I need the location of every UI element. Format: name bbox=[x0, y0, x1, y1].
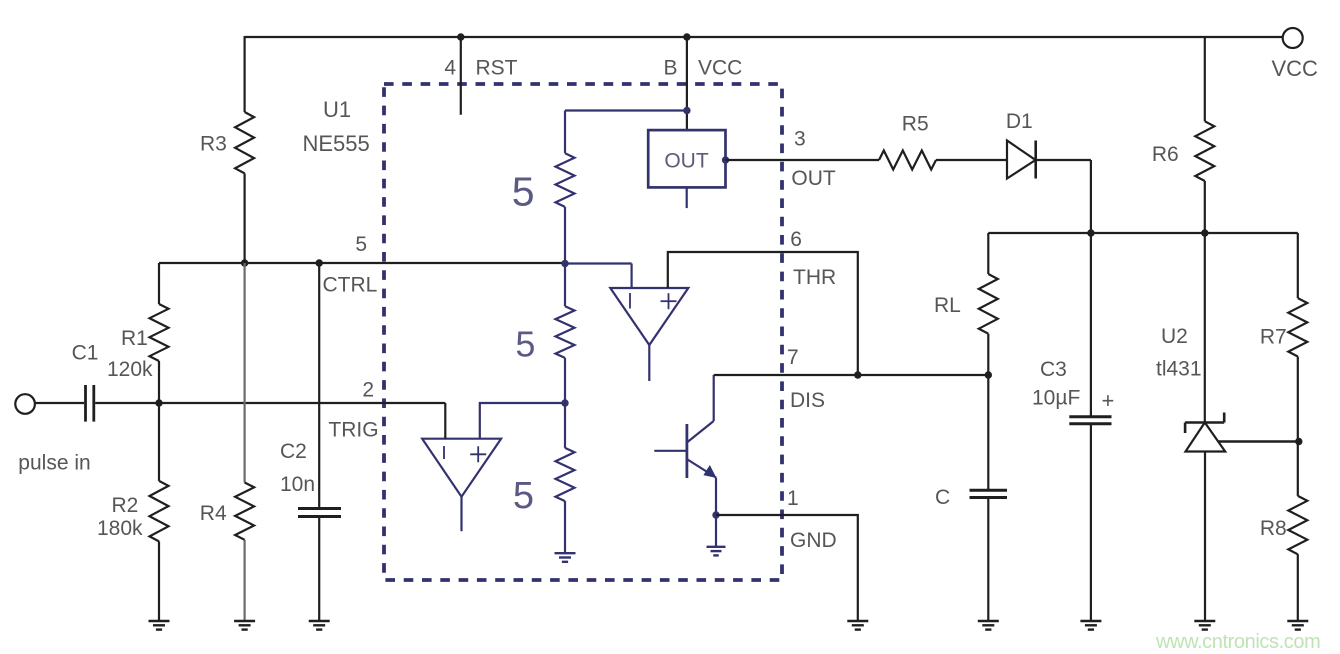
svg-text:pulse in: pulse in bbox=[18, 452, 90, 475]
svg-text:NE555: NE555 bbox=[303, 131, 370, 156]
svg-text:5: 5 bbox=[355, 233, 367, 256]
svg-text:U2: U2 bbox=[1161, 325, 1188, 348]
svg-text:CTRL: CTRL bbox=[323, 274, 378, 297]
svg-text:R1: R1 bbox=[121, 327, 148, 350]
svg-text:10n: 10n bbox=[280, 473, 315, 496]
svg-text:RL: RL bbox=[934, 294, 961, 317]
svg-text:5: 5 bbox=[512, 169, 535, 215]
svg-text:www.cntronics.com: www.cntronics.com bbox=[1155, 631, 1320, 653]
svg-text:TRIG: TRIG bbox=[328, 419, 378, 442]
svg-text:R7: R7 bbox=[1260, 326, 1287, 349]
svg-text:R6: R6 bbox=[1152, 143, 1179, 166]
svg-text:C: C bbox=[935, 486, 950, 509]
svg-text:R2: R2 bbox=[112, 494, 139, 517]
svg-text:R8: R8 bbox=[1260, 517, 1287, 540]
svg-text:C3: C3 bbox=[1040, 358, 1067, 381]
svg-text:VCC: VCC bbox=[698, 57, 742, 80]
svg-text:7: 7 bbox=[787, 346, 799, 369]
svg-text:tl431: tl431 bbox=[1156, 358, 1202, 381]
svg-text:VCC: VCC bbox=[1272, 56, 1319, 81]
svg-text:5: 5 bbox=[515, 324, 535, 365]
svg-text:10µF: 10µF bbox=[1032, 387, 1080, 410]
svg-text:DIS: DIS bbox=[790, 389, 825, 412]
svg-text:1: 1 bbox=[787, 487, 799, 510]
svg-text:C2: C2 bbox=[280, 440, 307, 463]
svg-text:120k: 120k bbox=[107, 358, 153, 381]
svg-text:R3: R3 bbox=[200, 133, 227, 156]
svg-text:+: + bbox=[1102, 388, 1115, 413]
svg-text:180k: 180k bbox=[97, 517, 143, 540]
svg-text:C1: C1 bbox=[72, 342, 99, 365]
svg-text:R4: R4 bbox=[200, 502, 227, 525]
svg-text:2: 2 bbox=[362, 379, 374, 402]
svg-text:OUT: OUT bbox=[664, 150, 709, 173]
svg-text:B: B bbox=[663, 57, 677, 80]
svg-text:THR: THR bbox=[793, 266, 836, 289]
svg-text:OUT: OUT bbox=[791, 167, 836, 190]
svg-text:4: 4 bbox=[444, 57, 456, 80]
svg-text:U1: U1 bbox=[323, 97, 351, 122]
svg-text:R5: R5 bbox=[902, 113, 929, 136]
svg-text:GND: GND bbox=[790, 529, 837, 552]
svg-text:5: 5 bbox=[513, 475, 534, 517]
svg-text:6: 6 bbox=[790, 228, 802, 251]
svg-text:3: 3 bbox=[794, 128, 806, 151]
svg-text:RST: RST bbox=[476, 57, 518, 80]
svg-text:D1: D1 bbox=[1006, 110, 1033, 133]
